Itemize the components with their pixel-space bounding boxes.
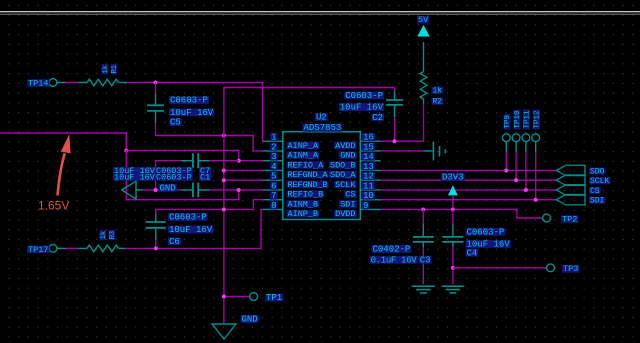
label C4 refdes	[466, 248, 479, 258]
pin 11 CS stub	[360, 189, 380, 191]
label R1 refdes	[111, 64, 119, 74]
label C1 refdes	[199, 172, 211, 182]
pin 6 number	[270, 181, 277, 191]
wire SCLK (pin 12)	[381, 179, 557, 181]
svg-text:TP10: TP10	[514, 110, 522, 129]
pin 2 name AINM_A	[287, 151, 320, 161]
wire DVDD to C3	[422, 209, 424, 224]
wire C7 to GND node	[156, 161, 181, 190]
svg-text:R2: R2	[433, 98, 443, 107]
pin 14 number	[362, 152, 375, 162]
pin 1 AINP_A stub	[263, 140, 283, 142]
pin 7 AINM_B stub	[263, 199, 283, 201]
label C1 value 10uF 16V	[113, 172, 156, 182]
junction DVDD/C3	[421, 207, 425, 211]
wire CS (pin 11)	[381, 189, 557, 191]
svg-text:TP1: TP1	[266, 293, 282, 303]
label port SCLK	[589, 177, 610, 186]
label C6 footprint C0603-P	[168, 213, 208, 223]
test point TP14	[27, 78, 57, 88]
test point TP12	[532, 110, 542, 142]
pin 8 name AINP_B	[287, 209, 320, 219]
svg-text:R1: R1	[111, 65, 119, 73]
pin 11 name CS	[344, 190, 356, 200]
junction DVDD/D3V3/C4	[451, 207, 455, 211]
wire TP14 to R1	[57, 82, 79, 84]
svg-text:6: 6	[271, 181, 276, 191]
pin 5 name REFGND_B	[287, 180, 329, 190]
svg-text:AINP_A: AINP_A	[288, 141, 320, 151]
resistor R2	[420, 42, 427, 104]
ground symbol C3	[412, 286, 435, 293]
label C7 refdes	[199, 166, 211, 176]
wire pin 9 DVDD to TP2	[381, 209, 543, 218]
svg-text:GND: GND	[340, 151, 355, 161]
junction 1.65V node J1	[124, 149, 128, 153]
port SDI	[556, 195, 585, 205]
wire C3 to ground	[422, 247, 424, 285]
svg-text:1: 1	[271, 133, 276, 143]
pin 9 number	[362, 201, 369, 211]
svg-text:D3V3: D3V3	[442, 172, 464, 182]
svg-text:1k: 1k	[102, 65, 110, 73]
svg-text:5V: 5V	[418, 15, 429, 25]
svg-text:C2: C2	[372, 113, 383, 123]
svg-text:12: 12	[363, 172, 374, 182]
wire C2 to AVDD node	[394, 118, 396, 141]
svg-text:TP11: TP11	[524, 110, 532, 129]
pin 5 number	[270, 172, 277, 182]
pin 10 SDI stub	[360, 199, 380, 201]
svg-text:ADS7853: ADS7853	[304, 123, 342, 133]
pin 3 number	[270, 152, 277, 162]
pin 15 name GND	[339, 151, 356, 161]
junction AVDD/C2	[393, 139, 397, 143]
wire net 1.65V from left edge	[0, 133, 126, 151]
wire 1.65V to pin 3 REFIO_A	[126, 151, 263, 161]
wire SDO (pin 13)	[381, 169, 557, 171]
pin 3 REFIO_A stub	[263, 160, 283, 162]
svg-text:0.1uF 16V: 0.1uF 16V	[371, 255, 418, 265]
svg-text:10uF 16V: 10uF 16V	[114, 172, 156, 182]
pin 16 AVDD stub	[360, 140, 380, 142]
pin 8 number	[270, 201, 277, 211]
pin 4 number	[270, 162, 277, 172]
junction TP10	[514, 178, 518, 182]
pin 2 number	[270, 142, 277, 152]
label R1 value 1k	[102, 64, 110, 74]
pin 10 number	[362, 191, 375, 201]
svg-text:REFGND_B: REFGND_B	[288, 180, 328, 190]
label GND (bottom)	[241, 315, 259, 325]
pin 4 REFGND_A stub	[263, 169, 283, 171]
junction C6/R3	[154, 246, 158, 250]
pin 16 number	[362, 133, 375, 143]
resistor R1	[79, 79, 128, 86]
label C4 footprint C0603-P	[466, 227, 506, 237]
svg-text:SCLK: SCLK	[590, 177, 609, 186]
pin 15 number	[362, 142, 375, 152]
label R3 value 1k	[100, 230, 108, 240]
test point TP10	[512, 110, 522, 142]
ground GND (left triangle)	[122, 181, 143, 199]
wire C4 to ground	[452, 247, 454, 285]
pin 1 name AINP_A	[287, 141, 320, 151]
wire pin 4 REFGND_A	[224, 169, 263, 171]
junction REFGND_B	[222, 178, 226, 182]
svg-text:AINM_B: AINM_B	[288, 199, 319, 209]
wire TP10 down	[515, 142, 517, 181]
svg-text:8: 8	[271, 201, 276, 211]
label C4 value 10uF 16V	[466, 240, 511, 250]
svg-text:2: 2	[271, 142, 276, 152]
svg-text:R3: R3	[109, 231, 117, 239]
junction TP12	[534, 198, 538, 202]
junction TP11	[524, 188, 528, 192]
label C1 footprint C0603-P	[155, 172, 193, 182]
wire R1 to pin 1 AINP_A	[127, 83, 263, 142]
wire SDI (pin 10)	[381, 199, 557, 201]
svg-text:1k: 1k	[433, 87, 443, 96]
wire C1 to pin 6 REFIO_B	[210, 189, 263, 191]
label R2 value 1k	[432, 87, 444, 96]
wire 1.65V to pin 6 REFIO_B	[126, 151, 238, 200]
junction GND node	[154, 188, 158, 192]
port CS	[556, 185, 585, 195]
svg-text:15: 15	[363, 142, 374, 152]
svg-text:REFIO_A: REFIO_A	[288, 160, 325, 170]
wire DVDD to C4	[452, 209, 454, 224]
label R2 refdes	[432, 98, 444, 107]
svg-text:REFGND_A: REFGND_A	[288, 170, 329, 180]
resistor R3	[79, 245, 126, 252]
label C7 value 10uF 16V	[113, 166, 156, 176]
svg-text:1k: 1k	[100, 231, 108, 239]
label R3 refdes	[109, 230, 117, 240]
svg-text:C0402-P: C0402-P	[373, 245, 411, 255]
svg-text:13: 13	[363, 162, 374, 172]
wire C6 to R3 node	[155, 240, 157, 248]
power D3V3	[441, 172, 465, 209]
ground symbol pin 15	[433, 142, 445, 161]
pin 3 name REFIO_A	[287, 160, 325, 170]
pin 11 number	[362, 181, 375, 191]
pin 12 number	[362, 172, 375, 182]
test point TP2	[543, 214, 579, 224]
capacitor C4	[442, 224, 463, 247]
svg-text:CS: CS	[590, 187, 600, 196]
wire TP11 down	[525, 142, 527, 190]
test point TP9	[502, 114, 512, 142]
pin 4 name REFGND_A	[287, 170, 329, 180]
pin 16 name AVDD	[334, 141, 356, 151]
svg-text:10: 10	[363, 191, 374, 201]
svg-text:10uF 16V: 10uF 16V	[170, 108, 214, 118]
pin 14 name SDO_B	[329, 160, 357, 170]
label C2 footprint C0603-P	[344, 91, 384, 101]
label C5 footprint C0603-P	[169, 96, 209, 106]
svg-text:GND: GND	[160, 183, 176, 193]
svg-text:SDO: SDO	[590, 167, 605, 176]
svg-text:REFIO_B: REFIO_B	[288, 190, 324, 200]
pin 2 AINM_A stub	[263, 150, 283, 152]
pin 9 name DVDD	[334, 209, 356, 219]
wire GND bus to C2	[394, 88, 396, 92]
pin 15 GND stub	[360, 150, 380, 152]
svg-text:10uF 16V: 10uF 16V	[169, 225, 213, 235]
pin 7 number	[270, 191, 277, 201]
pin 6 REFIO_B stub	[263, 189, 283, 191]
junction REFIO_B node	[237, 188, 241, 192]
svg-text:C1: C1	[200, 172, 210, 182]
wire pin 5 REFGND_B	[224, 179, 263, 181]
wire TP17 to R3	[57, 247, 79, 249]
label C3 footprint C0402-P	[372, 245, 412, 255]
label C2 value 10uF 16V	[339, 103, 384, 113]
pin 12 name SCLK	[334, 180, 356, 190]
svg-text:SDO_A: SDO_A	[330, 170, 356, 180]
capacitor C3	[413, 224, 434, 247]
wire R3 to pin 8 AINP_B	[125, 209, 263, 248]
svg-text:C0603-P: C0603-P	[345, 91, 383, 101]
svg-text:TP2: TP2	[562, 214, 577, 224]
label port SDI	[589, 197, 605, 206]
junction AINM_B / GND bus	[222, 207, 226, 211]
svg-text:C6: C6	[169, 237, 180, 247]
ground GND (bottom triangle)	[212, 324, 236, 339]
pin 13 name SDO_A	[329, 170, 357, 180]
svg-text:TP9: TP9	[504, 115, 512, 129]
svg-text:U2: U2	[316, 113, 327, 123]
svg-text:SDO_B: SDO_B	[330, 160, 356, 170]
svg-text:GND: GND	[242, 315, 258, 325]
svg-text:10uF 16V: 10uF 16V	[340, 103, 384, 113]
test point TP3	[547, 264, 580, 274]
wire GND triangle to C1	[143, 189, 181, 191]
test point TP11	[522, 110, 532, 142]
pin 14 SDO_B stub	[360, 160, 380, 162]
label C6 value 10uF 16V	[168, 225, 213, 235]
capacitor C5	[147, 94, 164, 124]
junction node REFIO_A J2	[237, 159, 241, 163]
svg-text:TP12: TP12	[534, 110, 542, 128]
label U2 part ADS7853	[303, 123, 343, 133]
svg-text:16: 16	[363, 133, 374, 143]
svg-text:C4: C4	[467, 248, 478, 258]
pin 12 SCLK stub	[360, 179, 380, 181]
svg-text:4: 4	[271, 162, 276, 172]
label C7 footprint C0603-P	[155, 166, 193, 176]
wire C7 to REFIO_A	[210, 160, 239, 162]
op-amp/ADC U2 body	[283, 132, 361, 220]
pin 10 name SDI	[339, 199, 356, 209]
label port CS	[589, 187, 601, 196]
annotation arrow 1.65V	[58, 134, 71, 196]
label GND (left)	[159, 183, 177, 193]
pin 6 name REFIO_B	[287, 190, 325, 200]
wire GND bus	[224, 88, 395, 325]
svg-text:C0603-P: C0603-P	[170, 96, 208, 106]
svg-text:7: 7	[271, 191, 276, 201]
label C2 refdes	[371, 113, 384, 123]
svg-text:AVDD: AVDD	[335, 141, 355, 151]
label C3 refdes	[419, 255, 432, 265]
label U2 refdes	[315, 113, 328, 123]
pin 7 name AINM_B	[287, 199, 320, 209]
svg-text:C0603-P: C0603-P	[467, 227, 505, 237]
svg-text:TP14: TP14	[28, 78, 48, 88]
wire GND bus to TP1	[224, 296, 250, 298]
wire TP12 down	[535, 142, 537, 200]
test point TP17	[27, 245, 57, 255]
pin 1 number	[270, 133, 277, 143]
svg-text:1.65V: 1.65V	[38, 199, 69, 213]
wire TP9 down	[505, 142, 507, 171]
svg-text:3: 3	[271, 152, 276, 162]
wire pin 16 AVDD to R2	[381, 104, 424, 141]
wire pin 15 GND	[381, 150, 434, 152]
svg-text:C0603-P: C0603-P	[169, 213, 207, 223]
svg-text:SCLK: SCLK	[335, 180, 356, 190]
label port SDO	[589, 167, 605, 176]
svg-text:C0603-P: C0603-P	[156, 172, 192, 182]
port SCLK	[556, 175, 585, 185]
junction TP9	[504, 168, 508, 172]
svg-text:TP17: TP17	[28, 245, 48, 255]
svg-text:C3: C3	[420, 255, 431, 265]
junction TP1 / GND bus	[222, 295, 226, 299]
wire TP3	[453, 267, 547, 269]
svg-text:5: 5	[271, 172, 276, 182]
svg-text:AINP_B: AINP_B	[288, 209, 319, 219]
capacitor C6	[146, 214, 166, 241]
ground symbol C4	[441, 286, 464, 293]
capacitor C7	[181, 153, 210, 168]
junction C5 wire / GND bus	[222, 134, 226, 138]
svg-text:AINM_A: AINM_A	[288, 151, 320, 161]
pin 8 AINP_B stub	[263, 208, 283, 210]
pin 9 DVDD stub	[360, 208, 380, 210]
svg-text:SDI: SDI	[590, 197, 604, 206]
power 5V	[417, 15, 430, 36]
wire junction to C5	[155, 83, 157, 94]
label C5 refdes	[169, 118, 182, 128]
junction REFGND_A	[222, 168, 226, 172]
label C5 value 10uF 16V	[169, 108, 214, 118]
svg-text:CS: CS	[345, 190, 355, 200]
wire C5 to pin 2 AINM_A	[156, 123, 264, 151]
capacitor C2	[386, 92, 403, 118]
test point TP1	[250, 293, 283, 304]
annotation text 1.65V	[38, 199, 69, 213]
label C6 refdes	[168, 237, 181, 247]
svg-text:C5: C5	[170, 118, 181, 128]
svg-text:TP3: TP3	[563, 264, 578, 274]
svg-text:SDI: SDI	[340, 199, 355, 209]
svg-text:9: 9	[363, 201, 368, 211]
svg-text:11: 11	[363, 181, 374, 191]
label C3 value 0.1uF 16V	[370, 255, 418, 265]
junction TP3/C4 ground	[451, 266, 455, 270]
wire C6/GND-bus to pin 7 AINM_B	[156, 200, 263, 214]
pin 13 number	[362, 162, 375, 172]
port SDO	[556, 165, 585, 175]
capacitor C1	[181, 183, 210, 198]
pin 13 SDO_A stub	[360, 169, 380, 171]
svg-text:DVDD: DVDD	[335, 209, 355, 219]
junction R1/C5 node	[154, 81, 158, 85]
pin 5 REFGND_B stub	[263, 179, 283, 181]
svg-text:14: 14	[363, 152, 374, 162]
